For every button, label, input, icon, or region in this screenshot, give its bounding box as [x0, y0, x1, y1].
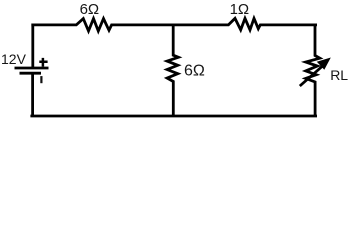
- svg-text:6Ω: 6Ω: [184, 63, 205, 80]
- svg-text:RL: RL: [330, 67, 348, 83]
- svg-text:6Ω: 6Ω: [80, 1, 100, 18]
- svg-text:12V: 12V: [1, 51, 27, 67]
- svg-text:1Ω: 1Ω: [230, 1, 250, 18]
